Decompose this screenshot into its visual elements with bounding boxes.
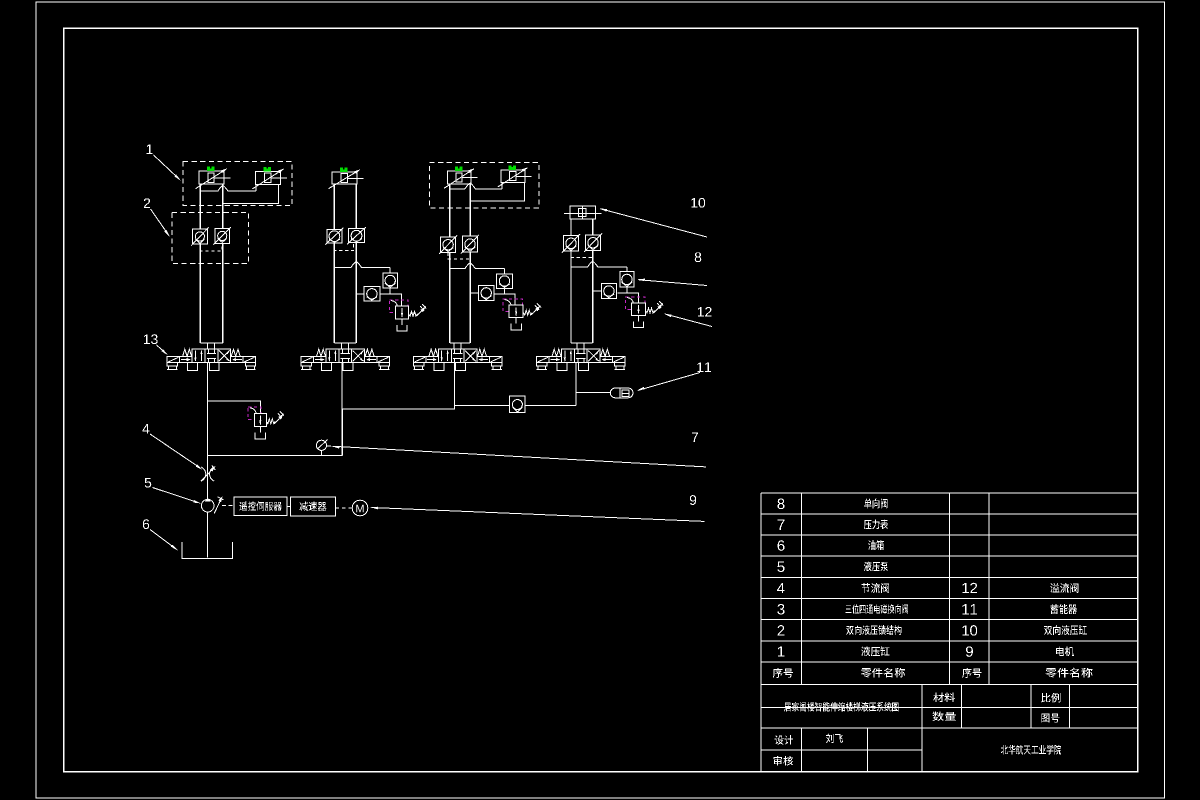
- oil tank (item 6): [182, 542, 232, 559]
- column2 right pipe: [355, 184, 357, 229]
- wire side chain column2: [389, 288, 391, 294]
- label 7 leader: [332, 432, 707, 467]
- column3 pilot check valve right: [461, 235, 479, 254]
- label 11 leader: [637, 362, 712, 390]
- wire valveB-right to right pipe: [223, 185, 279, 204]
- column3 valve B: [498, 165, 532, 187]
- main relief valve: [248, 407, 284, 439]
- pump suction line into tank: [207, 512, 209, 558]
- throttle valve on main line (item 4): [201, 465, 216, 481]
- accumulator (item 11): [610, 388, 633, 398]
- column1 right pipe: [222, 184, 224, 229]
- bus check valve: [510, 396, 526, 413]
- column1 pilot check valve right: [213, 227, 231, 245]
- column3 side check valve upper: [497, 274, 513, 289]
- parts table numbers column: [777, 499, 977, 657]
- column3 left pipe: [449, 184, 451, 237]
- variable servo box: [234, 497, 287, 516]
- reducer box: [290, 497, 335, 516]
- column4 relief valve (item 12): [625, 297, 663, 328]
- column3 pilot check valve left: [439, 235, 457, 254]
- pilot dashed wire pump to servo box: [222, 505, 234, 507]
- column2 left pipe: [333, 184, 335, 229]
- column2 side check valve upper: [383, 273, 398, 288]
- wire column3 valveB-left to left pipe (hop): [450, 183, 502, 189]
- column3 cross pilot dashed lines: [448, 252, 470, 259]
- directional valve V4 (3-pos 4-way solenoid): [537, 349, 625, 371]
- directional valve V2 (3-pos 4-way solenoid): [301, 349, 389, 371]
- parts table name texts: [773, 498, 1093, 677]
- column3 relief valve: [503, 299, 541, 330]
- column2 valve (throttle/cylinder unit): [329, 168, 364, 189]
- dashed enclosure box 1 (item 1 cylinder group): [183, 162, 292, 206]
- column2 pilot check valve right: [347, 227, 366, 244]
- label 5 leader: [145, 478, 202, 504]
- bus wire V2 to V3 to V4: [342, 406, 510, 410]
- label 6 leader: [143, 519, 178, 550]
- column3 right pipe: [469, 184, 471, 236]
- column3 branch wire to side chain: [450, 263, 505, 269]
- wire valveB-left to left pipe (hop over right pipe): [200, 186, 256, 192]
- column2 relief valve: [389, 300, 426, 331]
- label 8 leader: [637, 252, 707, 285]
- directional valve V3 (3-pos 4-way solenoid): [414, 349, 502, 371]
- wire side chain column3: [503, 288, 505, 294]
- column3 side check valve lower: [479, 285, 494, 300]
- pilot dashed wire reducer to motor: [335, 507, 352, 509]
- directional valve V2 top connection bar: [334, 342, 356, 344]
- dashed enclosure box 3 (column 3 cylinder group): [430, 163, 539, 209]
- column4 left pipe: [570, 219, 572, 236]
- column4 cross pilot dashed lines: [571, 251, 593, 258]
- label 9 leader: [370, 495, 705, 521]
- directional valve V1 top connection bar: [200, 342, 223, 344]
- column1 left pipe: [199, 184, 201, 229]
- label 12 leader: [664, 307, 713, 327]
- wire servo to reducer: [287, 505, 290, 507]
- column1 valve B: [252, 167, 287, 189]
- V3 drop line: [453, 363, 455, 409]
- hydraulic pump (item 5): [201, 496, 223, 514]
- accumulator branch wire: [576, 391, 610, 393]
- column2 cross pilot dashed lines: [334, 243, 353, 251]
- parts table grid: [761, 493, 1138, 771]
- column3 valve A: [444, 167, 478, 189]
- column4 right pipe: [592, 219, 594, 235]
- title block texts: [773, 693, 1061, 766]
- bus branch to relief valve 1: [207, 401, 260, 413]
- column2 branch wire to side chain: [334, 262, 390, 268]
- column4 side check valve upper (item 8): [620, 272, 634, 288]
- label 4 leader: [142, 424, 203, 470]
- column4 side check valve lower: [601, 284, 616, 299]
- wire side chain column4: [626, 287, 628, 293]
- V2 drop line: [341, 363, 343, 456]
- wire column3 valveB-right to right pipe: [470, 183, 524, 202]
- dashed enclosure box 2 (item 2 hydraulic lock group): [172, 212, 248, 263]
- column4 branch wire to side chain: [571, 261, 627, 267]
- V4 drop line: [575, 363, 577, 406]
- label 2 leader: [144, 198, 170, 237]
- main pressure line from valve V1 down to pump: [206, 363, 208, 500]
- label 1 leader: [147, 144, 182, 181]
- label 10 leader: [599, 198, 707, 237]
- pressure gauge (item 7): [316, 440, 331, 456]
- column2 pilot check valve left: [325, 228, 343, 245]
- electric motor M (item 9): [352, 500, 368, 516]
- column1 valve A (throttle/cylinder unit): [196, 167, 231, 189]
- column1 cross pilot dashed lines: [200, 243, 222, 251]
- column2 side check valve lower: [364, 287, 380, 302]
- directional valve V3 top connection bar: [450, 342, 470, 344]
- label 13 leader: [144, 334, 169, 355]
- column4 pilot check valve right: [584, 233, 602, 252]
- directional valve V4 top connection bar: [571, 342, 593, 344]
- column4 pilot check valve left: [562, 234, 580, 253]
- directional valve V1 (3-pos 4-way solenoid): [167, 349, 255, 371]
- return bus wire: [207, 454, 342, 456]
- column1 pilot check valve left: [191, 227, 209, 245]
- column4 cylinder head box (item 10): [564, 206, 602, 219]
